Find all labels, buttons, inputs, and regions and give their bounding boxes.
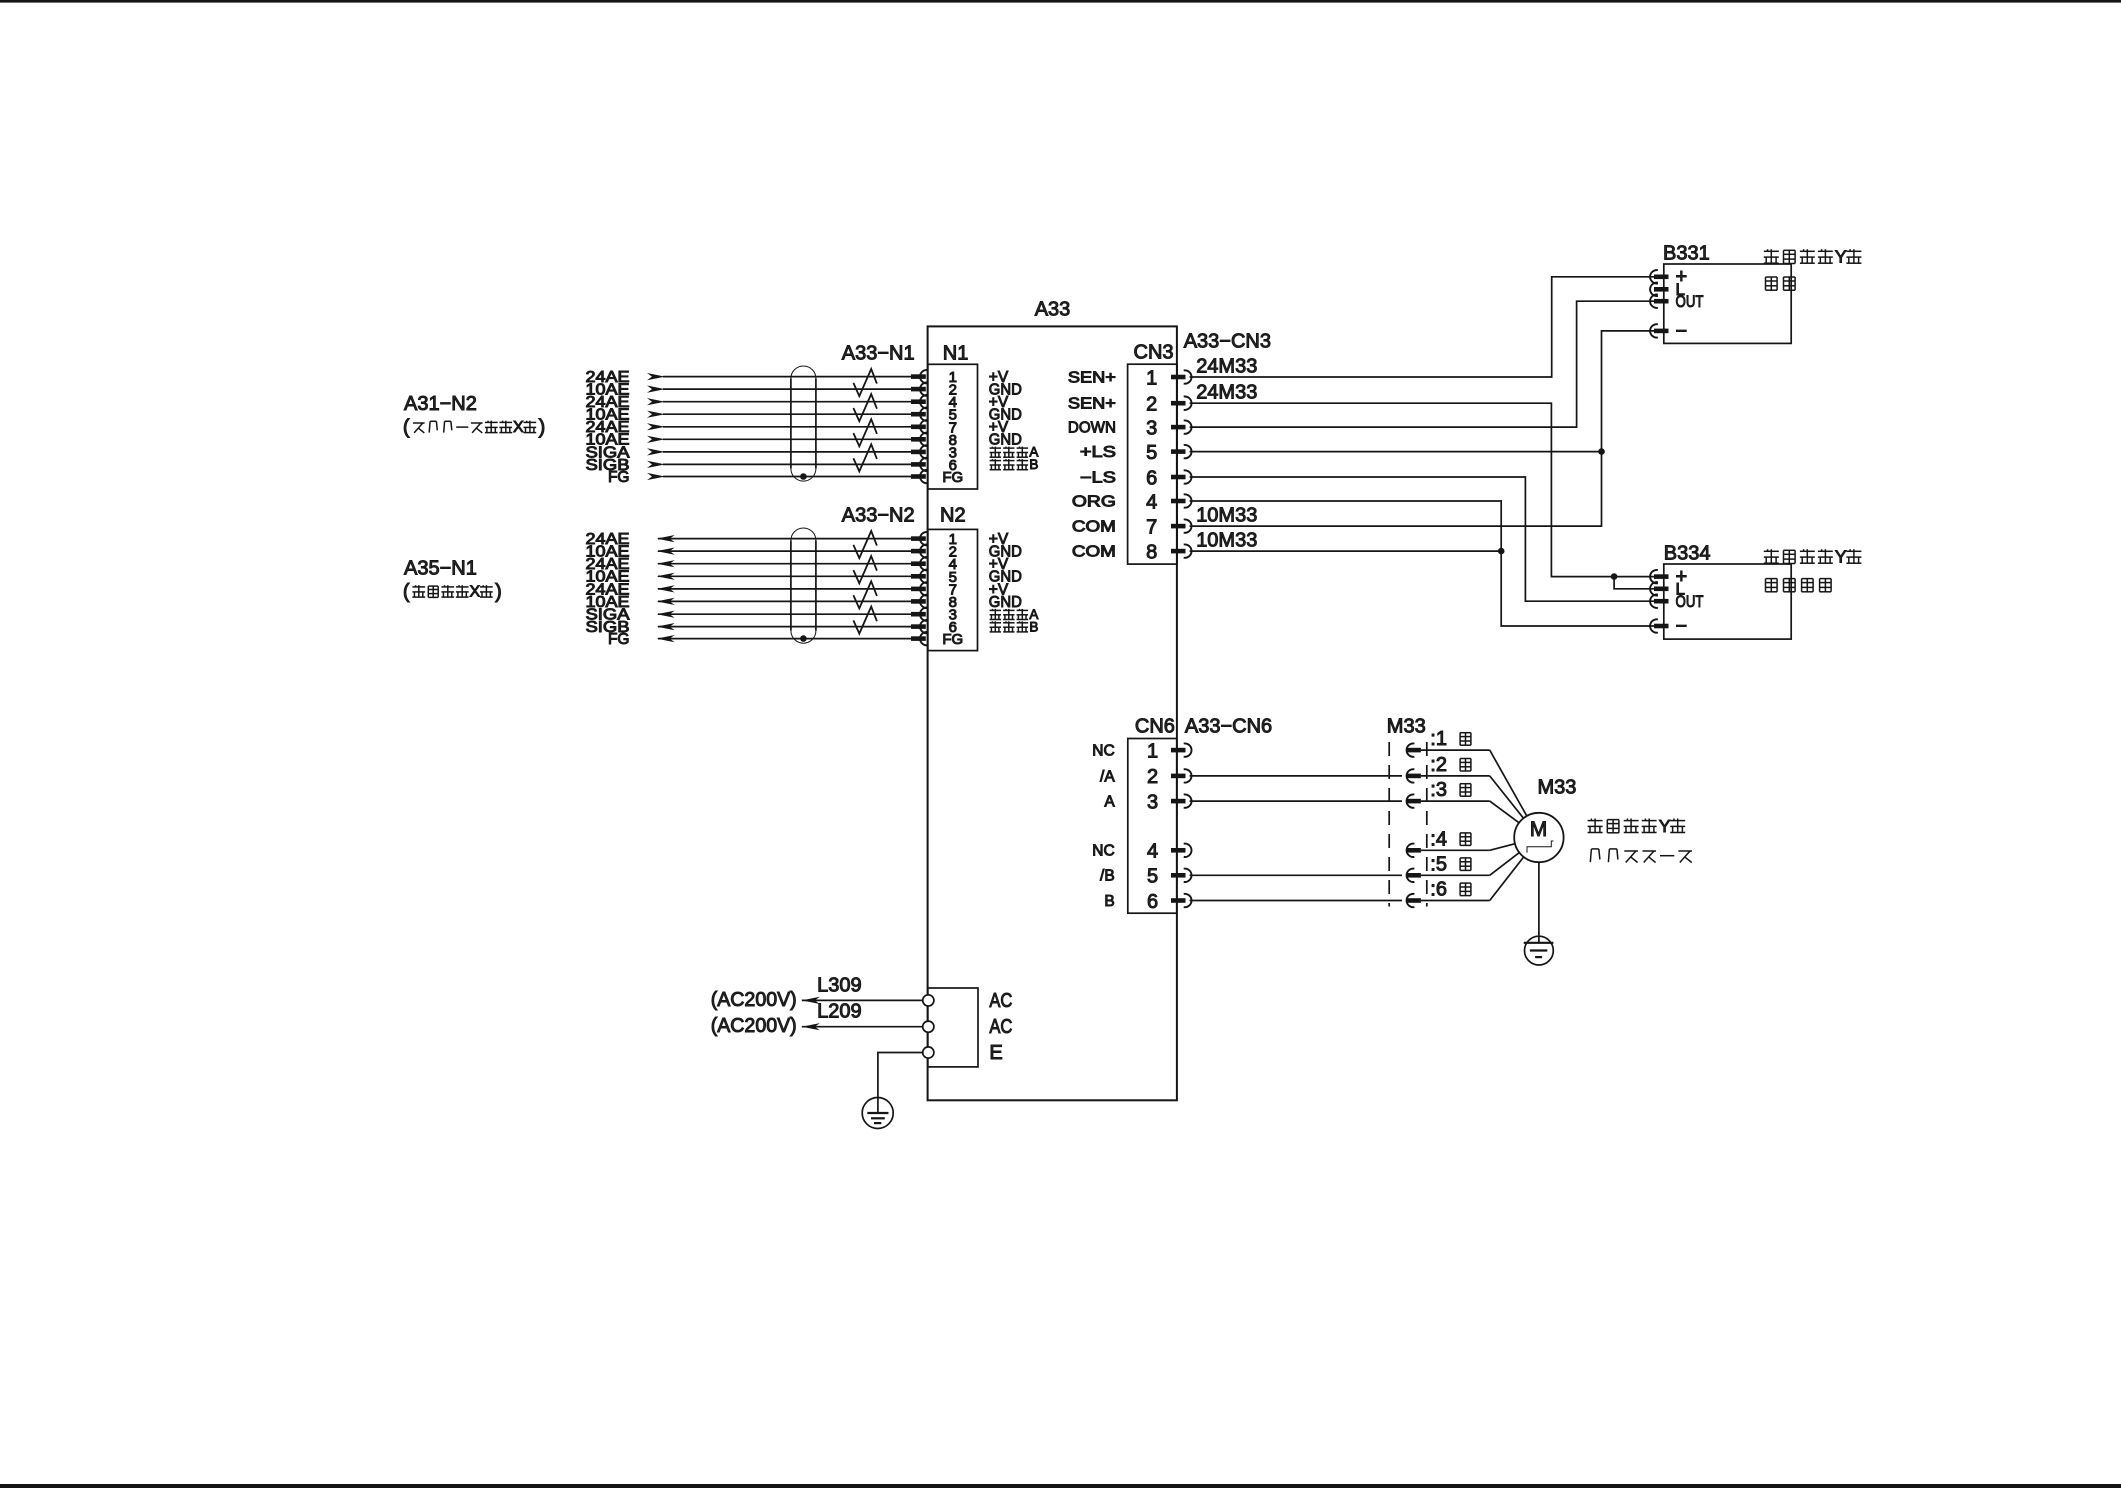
svg-text:L209: L209 [817, 1001, 862, 1023]
svg-text:2: 2 [1147, 766, 1158, 788]
svg-text:(: ( [403, 581, 410, 603]
svg-text:OUT: OUT [1676, 292, 1704, 311]
svg-text:FG: FG [608, 631, 630, 648]
svg-text:(AC200V): (AC200V) [711, 989, 797, 1011]
svg-text::4: :4 [1430, 828, 1447, 850]
svg-text:Y: Y [1835, 247, 1847, 267]
svg-text:(: ( [403, 417, 410, 439]
svg-text:COM: COM [1072, 519, 1116, 536]
svg-text:7: 7 [1146, 516, 1157, 538]
svg-text:10M33: 10M33 [1196, 505, 1257, 527]
svg-text:+LS: +LS [1080, 444, 1116, 461]
svg-text:2: 2 [1146, 394, 1157, 416]
svg-text:8: 8 [1146, 541, 1157, 563]
svg-text:6: 6 [1147, 891, 1158, 913]
svg-text:4: 4 [1146, 491, 1157, 513]
svg-text:M: M [1530, 818, 1548, 841]
svg-text:SEN+: SEN+ [1068, 369, 1116, 386]
svg-text:A31−N2: A31−N2 [404, 393, 477, 415]
svg-text:B: B [1104, 893, 1114, 910]
svg-text:−LS: −LS [1080, 469, 1116, 486]
svg-text:NC: NC [1092, 843, 1114, 860]
svg-text:A33−N1: A33−N1 [842, 343, 915, 365]
svg-text:B: B [1029, 457, 1038, 472]
svg-text:CN6: CN6 [1135, 716, 1175, 738]
svg-text::1: :1 [1430, 728, 1447, 750]
svg-text:A35−N1: A35−N1 [404, 558, 477, 580]
svg-text:A33−N2: A33−N2 [842, 505, 915, 527]
svg-text:FG: FG [942, 631, 963, 648]
svg-text:A33−CN6: A33−CN6 [1185, 716, 1272, 738]
svg-text:10M33: 10M33 [1196, 530, 1257, 552]
svg-text:GND: GND [989, 432, 1022, 449]
svg-text:6: 6 [1146, 467, 1157, 489]
svg-text:SEN+: SEN+ [1068, 396, 1116, 413]
svg-text:GND: GND [989, 594, 1022, 611]
svg-text:−: − [1676, 615, 1688, 637]
svg-text:/B: /B [1100, 868, 1115, 885]
svg-text:E: E [989, 1042, 1002, 1064]
svg-text::2: :2 [1430, 754, 1447, 776]
svg-text:5: 5 [1146, 442, 1157, 464]
svg-text:A33: A33 [1035, 298, 1071, 320]
svg-text:): ) [495, 581, 502, 603]
svg-text:3: 3 [1146, 417, 1157, 439]
svg-text:M33: M33 [1538, 777, 1577, 799]
svg-text::5: :5 [1430, 853, 1447, 875]
svg-text:DOWN: DOWN [1068, 420, 1116, 437]
svg-text:ORG: ORG [1072, 493, 1116, 510]
svg-text:NC: NC [1092, 743, 1114, 760]
svg-text:X: X [470, 584, 481, 601]
svg-text:CN3: CN3 [1134, 342, 1174, 364]
svg-text:FG: FG [608, 469, 630, 486]
svg-text:N1: N1 [943, 343, 969, 365]
svg-text:(AC200V): (AC200V) [711, 1015, 797, 1037]
svg-text:B334: B334 [1664, 543, 1711, 565]
svg-text:FG: FG [942, 469, 963, 486]
svg-text:1: 1 [1146, 367, 1157, 389]
svg-text:COM: COM [1072, 544, 1116, 561]
svg-text:N2: N2 [940, 505, 966, 527]
svg-text:5: 5 [1147, 866, 1158, 888]
svg-text:L309: L309 [817, 974, 862, 996]
svg-text:X: X [513, 419, 524, 436]
svg-text::3: :3 [1430, 779, 1447, 801]
svg-text:AC: AC [989, 990, 1012, 1012]
svg-text:OUT: OUT [1676, 592, 1704, 611]
svg-text:Y: Y [1659, 816, 1671, 836]
svg-text:B331: B331 [1663, 243, 1710, 265]
svg-text:24M33: 24M33 [1196, 356, 1257, 378]
svg-text:3: 3 [1147, 791, 1158, 813]
svg-text:A33−CN3: A33−CN3 [1184, 330, 1271, 352]
svg-text:AC: AC [989, 1016, 1012, 1038]
svg-text:4: 4 [1147, 841, 1158, 863]
svg-text:B: B [1029, 619, 1038, 634]
svg-text::6: :6 [1430, 879, 1447, 901]
svg-text:/A: /A [1100, 768, 1115, 785]
svg-text:1: 1 [1147, 740, 1158, 762]
svg-text:A: A [1104, 794, 1115, 811]
svg-text:Y: Y [1835, 547, 1847, 567]
svg-text:−: − [1676, 320, 1688, 342]
svg-text:M33: M33 [1387, 716, 1426, 738]
svg-text:): ) [539, 417, 546, 439]
svg-text:24M33: 24M33 [1196, 382, 1257, 404]
